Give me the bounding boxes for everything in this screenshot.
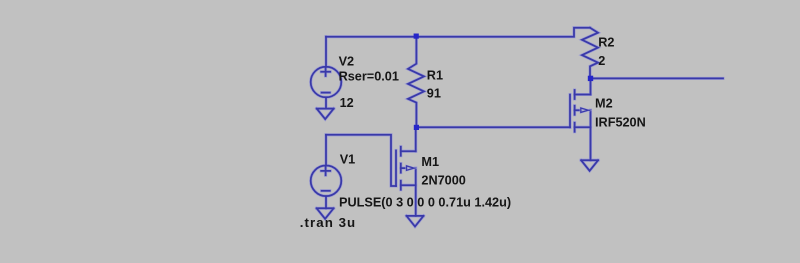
svg-text:V2: V2 (339, 54, 355, 68)
svg-text:R2: R2 (598, 35, 614, 49)
svg-text:M2: M2 (595, 97, 613, 111)
svg-text:12: 12 (340, 96, 354, 110)
svg-text:V1: V1 (340, 153, 356, 167)
svg-text:R1: R1 (427, 69, 443, 83)
svg-text:PULSE(0 3 0 0 0 0.71u 1.42u): PULSE(0 3 0 0 0 0.71u 1.42u) (339, 196, 511, 210)
svg-text:IRF520N: IRF520N (595, 115, 646, 129)
svg-text:M1: M1 (421, 155, 439, 169)
svg-text:91: 91 (427, 87, 441, 101)
svg-text:2: 2 (598, 54, 605, 68)
svg-text:2N7000: 2N7000 (421, 173, 465, 187)
svg-text:Rser=0.01: Rser=0.01 (339, 69, 399, 83)
svg-text:.tran 3u: .tran 3u (300, 215, 356, 230)
